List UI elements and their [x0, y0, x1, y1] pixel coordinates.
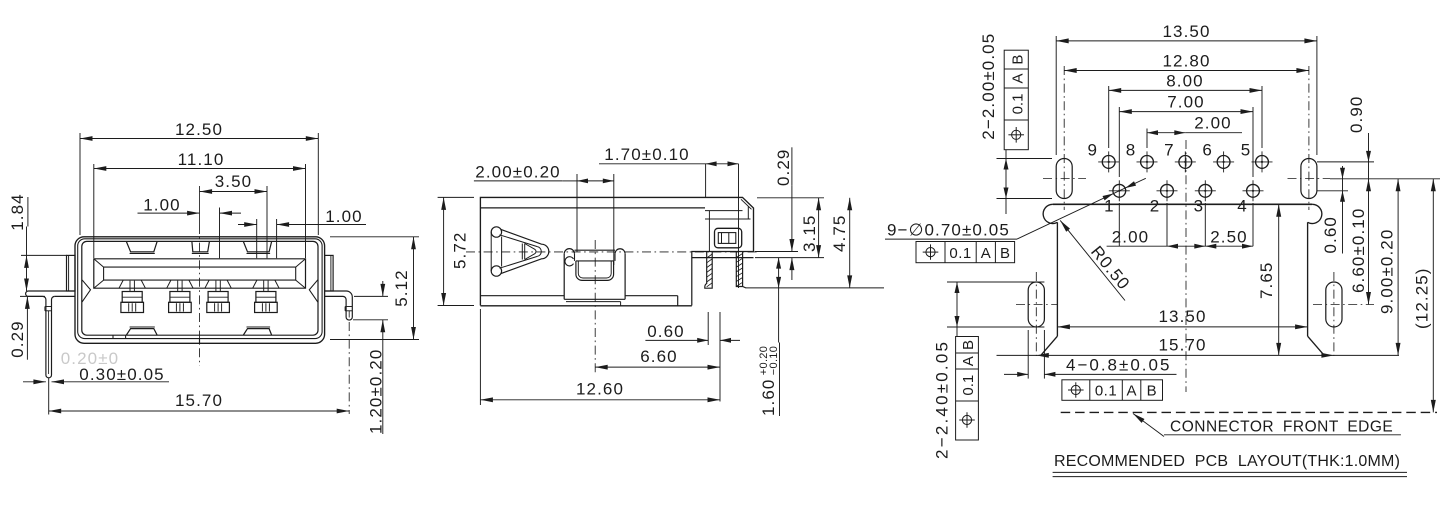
dim 1.00 right	[256, 219, 258, 258]
contact 1 wire	[129, 281, 131, 292]
hole pin 7	[1179, 156, 1192, 169]
dim 9.00±0.20	[1397, 179, 1399, 356]
dim 2-2.00±0.05 with frame	[979, 33, 998, 140]
dim 13.50 top	[1055, 36, 1057, 155]
svg-text:(12.25): (12.25)	[1413, 267, 1432, 329]
svg-text:CONNECTOR FRONT EDGE: CONNECTOR FRONT EDGE	[1170, 418, 1393, 435]
shell middle contour	[78, 239, 322, 339]
top oblong slot right	[1301, 159, 1317, 199]
frame for 9-dia0.70	[916, 242, 1015, 263]
svg-text:0.90: 0.90	[1347, 96, 1366, 134]
top latch notch center	[192, 242, 210, 252]
contact 1 body	[122, 292, 142, 303]
right ear tab	[325, 255, 334, 291]
svg-text:12.60: 12.60	[576, 380, 624, 399]
tongue face outline	[104, 267, 296, 280]
shell side right	[1307, 222, 1309, 336]
dim 1.84	[21, 254, 67, 256]
clip inner U	[576, 260, 614, 262]
contact 3 wire	[215, 281, 217, 292]
top oblong slot left	[1056, 159, 1072, 199]
dim 12.50	[79, 133, 81, 235]
vertical centerline left view	[199, 186, 201, 225]
svg-text:1.00: 1.00	[325, 207, 363, 226]
svg-text:3.15: 3.15	[800, 215, 819, 253]
clip centerline	[594, 240, 596, 374]
svg-text:4.75: 4.75	[830, 215, 849, 253]
svg-text:0.20±0: 0.20±0	[61, 349, 119, 368]
dim 0.29 left	[20, 295, 45, 297]
top latch notch left	[126, 242, 157, 252]
dim 11.10	[93, 164, 95, 258]
body outline	[480, 197, 753, 305]
dim 4-0.8±0.05	[1027, 330, 1029, 379]
dim 6.60±0.10 (shares line with 0.90)	[1368, 179, 1370, 305]
left leg crimp	[45, 306, 52, 308]
svg-text:9.00±0.20: 9.00±0.20	[1378, 229, 1397, 314]
oblong centerlines	[1063, 66, 1065, 210]
dim 15.70 bottom	[997, 354, 1400, 356]
center clip side view	[564, 249, 574, 254]
contact 2 body	[170, 292, 190, 303]
body rear lower corner	[692, 252, 754, 306]
svg-text:1.60: 1.60	[759, 379, 778, 417]
svg-text:13.50: 13.50	[1158, 307, 1206, 326]
svg-text:B: B	[1000, 245, 1010, 262]
svg-text:0.60: 0.60	[1321, 216, 1340, 254]
2-2.40 dim lines	[947, 281, 1044, 283]
right wall wedge	[309, 280, 318, 302]
body inner top line	[480, 207, 705, 209]
solder tail rear	[705, 252, 712, 289]
svg-text:9: 9	[1087, 141, 1096, 160]
svg-text:7.65: 7.65	[1257, 262, 1276, 300]
rear step line	[692, 257, 754, 259]
tongue outer outline	[94, 259, 306, 288]
body bottom step lines	[480, 295, 564, 297]
dim 1.00 left	[219, 208, 221, 259]
hole pin 2	[1161, 184, 1174, 197]
svg-text:5: 5	[1241, 141, 1250, 160]
bottom oblong slot left	[1028, 282, 1044, 327]
dim 7.00	[1118, 107, 1120, 177]
hole pin 3	[1199, 184, 1212, 197]
svg-text:12.50: 12.50	[175, 120, 223, 139]
bottom latch left	[126, 329, 157, 335]
svg-text:2−2.40±0.05: 2−2.40±0.05	[933, 340, 952, 459]
row2 pin extension lines	[1118, 203, 1120, 246]
contact slot bevels pin4	[253, 280, 257, 288]
svg-text:0.29: 0.29	[8, 320, 27, 358]
tongue bevel corner lines	[94, 259, 104, 267]
svg-text:0.1: 0.1	[949, 245, 971, 262]
dash-dot below right leg	[348, 322, 350, 414]
svg-text:B: B	[960, 340, 977, 350]
left leg	[43, 296, 55, 377]
shell bottom flare right	[1308, 336, 1324, 355]
dim 3.15	[757, 197, 824, 199]
rear block details	[705, 218, 751, 220]
clip spring curl	[565, 257, 574, 266]
svg-text:2.00: 2.00	[1194, 113, 1232, 132]
svg-text:11.10: 11.10	[178, 150, 225, 169]
svg-text:2.50: 2.50	[1210, 227, 1248, 246]
dim 1.60 +0.20 -0.10	[778, 258, 780, 288]
svg-text:9−∅0.70±0.05: 9−∅0.70±0.05	[887, 221, 1010, 240]
dim 2-2.40±0.05 with frame	[933, 340, 952, 459]
svg-text:4: 4	[1237, 197, 1246, 216]
svg-text:6: 6	[1202, 141, 1211, 160]
dim 1.20±0.20	[354, 295, 388, 297]
svg-text:3: 3	[1194, 197, 1203, 216]
svg-text:A: A	[960, 356, 977, 366]
right leg crimp	[345, 306, 352, 308]
hole pin 1	[1113, 184, 1126, 197]
svg-text:6.60±0.10: 6.60±0.10	[1349, 208, 1368, 293]
leader to pin 1 (diameter callout through hole)	[1017, 178, 1146, 239]
svg-text:RECOMMENDED PCB LAYOUT(THK:1.0: RECOMMENDED PCB LAYOUT(THK:1.0MM)	[1054, 453, 1400, 470]
solder tail front	[736, 252, 746, 289]
shell seam ticks bottom	[112, 335, 114, 338]
svg-text:1.00: 1.00	[143, 195, 181, 214]
svg-text:A: A	[1009, 73, 1026, 83]
svg-text:2: 2	[1150, 197, 1159, 216]
dim 2.00 row2	[1107, 245, 1167, 247]
shell inner contour	[82, 241, 318, 335]
shell outer contour	[75, 237, 325, 343]
V spring core	[521, 244, 523, 260]
shell rear edge with rolled curls	[1043, 204, 1057, 223]
dim 2.00 top row	[1146, 129, 1148, 149]
left wall wedge	[82, 280, 91, 302]
svg-text:7.00: 7.00	[1167, 93, 1205, 112]
top latch notch right	[243, 242, 271, 252]
bottom oblong slot right	[1326, 282, 1342, 327]
svg-text:A: A	[1126, 383, 1136, 400]
contact slot bevels pin1	[119, 280, 123, 288]
connector front edge dashed line	[1061, 411, 1437, 413]
dim 4.75	[746, 287, 884, 289]
svg-text:15.70: 15.70	[1158, 336, 1206, 355]
svg-text:8.00: 8.00	[1166, 72, 1204, 91]
bottom latch right	[243, 329, 271, 335]
contact 4 body	[256, 292, 276, 303]
svg-text:5.12: 5.12	[392, 269, 411, 307]
frame for 4-0.8	[1062, 380, 1163, 401]
svg-text:0.1: 0.1	[960, 375, 977, 396]
rear block window outer	[715, 228, 742, 248]
rear block window inner	[718, 233, 736, 244]
hole pin 4	[1247, 184, 1260, 197]
V latch spring side view	[491, 227, 501, 237]
centerline extension right	[1330, 178, 1440, 180]
svg-text:−0.10: −0.10	[768, 346, 780, 375]
dim 0.90	[1317, 161, 1374, 163]
front edge leader	[1133, 414, 1164, 437]
svg-text:3.50: 3.50	[215, 172, 253, 191]
svg-text:2.00±0.20: 2.00±0.20	[475, 162, 560, 181]
contact slot bevels pin3	[205, 280, 209, 288]
dim 8.00	[1108, 86, 1110, 148]
shell side left	[1056, 222, 1058, 336]
bottom oblong centerlines	[1035, 272, 1037, 356]
position symbol	[926, 248, 935, 257]
dim 5.12	[330, 236, 419, 238]
hole pin 6	[1217, 156, 1230, 169]
svg-text:1.84: 1.84	[8, 193, 27, 231]
svg-text:7: 7	[1164, 141, 1173, 160]
contact 2 wire	[177, 281, 179, 292]
svg-text:2.00: 2.00	[1112, 227, 1150, 246]
R0.50 leader	[1060, 220, 1125, 300]
svg-text:B: B	[1147, 383, 1157, 400]
dim 5.72	[438, 196, 474, 198]
right leg arm and leg (L-bend)	[325, 291, 353, 320]
svg-text:15.70: 15.70	[175, 391, 223, 410]
svg-text:1.70±0.10: 1.70±0.10	[604, 145, 689, 164]
dim 7.65	[1278, 204, 1280, 355]
svg-text:13.50: 13.50	[1162, 22, 1210, 41]
svg-text:4−0.8±0.05: 4−0.8±0.05	[1066, 355, 1171, 374]
svg-text:0.1: 0.1	[1095, 383, 1117, 400]
svg-text:8: 8	[1126, 141, 1135, 160]
dim 0.60 right view	[1317, 190, 1348, 192]
svg-text:12.80: 12.80	[1162, 52, 1210, 71]
dim 15.70	[48, 378, 50, 415]
svg-text:0.29: 0.29	[774, 149, 793, 187]
dim 12.80	[1064, 70, 1309, 72]
svg-text:A: A	[981, 245, 991, 262]
left ear tab	[67, 255, 76, 291]
2-2.00 dim lines	[997, 158, 1053, 160]
svg-text:6.60: 6.60	[640, 347, 678, 366]
dim 3.50	[266, 186, 268, 258]
svg-text:B: B	[1009, 55, 1026, 65]
position symbol in vertical frame	[1012, 130, 1021, 139]
dim (12.25)	[1432, 179, 1434, 413]
left leg arm	[26, 291, 75, 296]
contact 3 body	[208, 292, 228, 303]
svg-text:1.20±0.20: 1.20±0.20	[367, 349, 386, 434]
hole pin 5	[1256, 156, 1269, 169]
svg-text:0.60: 0.60	[647, 322, 685, 341]
contact 4 wire	[263, 281, 265, 292]
contact slot bevels pin2	[167, 280, 171, 288]
svg-text:0.1: 0.1	[1009, 94, 1026, 115]
shell bottom flare left	[1041, 336, 1057, 355]
dim 13.50 bottom	[1057, 326, 1307, 328]
svg-text:2−2.00±0.05: 2−2.00±0.05	[979, 33, 998, 140]
hole pin 9	[1102, 156, 1115, 169]
hole pin 8	[1141, 156, 1154, 169]
horizontal centerline middle view	[466, 251, 758, 253]
svg-text:5.72: 5.72	[451, 232, 470, 270]
view vertical centerline	[1185, 140, 1187, 392]
